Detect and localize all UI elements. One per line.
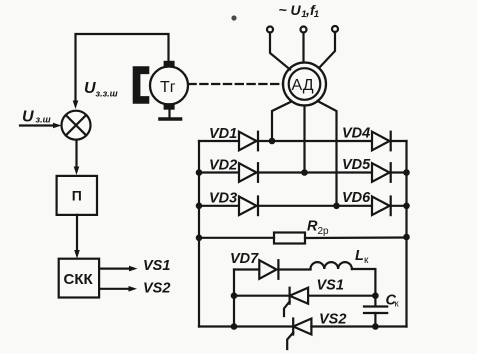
svg-text:VD6: VD6: [342, 190, 371, 206]
svg-text:VD2: VD2: [209, 157, 237, 173]
svg-text:АД: АД: [292, 77, 314, 94]
svg-text:VD3: VD3: [209, 191, 237, 207]
svg-text:VS1: VS1: [143, 258, 170, 274]
svg-text:U: U: [84, 80, 96, 97]
svg-text:U: U: [291, 2, 302, 18]
svg-text:VD5: VD5: [342, 157, 371, 173]
svg-text:з.ш: з.ш: [36, 115, 51, 125]
svg-text:VS1: VS1: [317, 278, 344, 294]
svg-text:VS2: VS2: [319, 312, 346, 328]
svg-text:з.з.ш: з.з.ш: [96, 89, 118, 99]
svg-text:П: П: [72, 188, 82, 204]
svg-text:~: ~: [279, 2, 287, 18]
svg-text:СКК: СКК: [64, 271, 94, 288]
svg-text:L: L: [355, 248, 364, 264]
svg-text:к: к: [364, 255, 369, 266]
svg-text:VD7: VD7: [230, 251, 259, 267]
svg-text:2р: 2р: [318, 226, 330, 237]
svg-text:к: к: [395, 299, 400, 310]
svg-text:VD1: VD1: [209, 126, 237, 142]
svg-text:1: 1: [314, 9, 319, 20]
svg-text:R: R: [307, 219, 318, 235]
svg-text:U: U: [22, 109, 34, 126]
svg-text:Тг: Тг: [160, 79, 176, 96]
svg-text:VD4: VD4: [342, 125, 370, 141]
svg-text:VS2: VS2: [143, 281, 170, 297]
